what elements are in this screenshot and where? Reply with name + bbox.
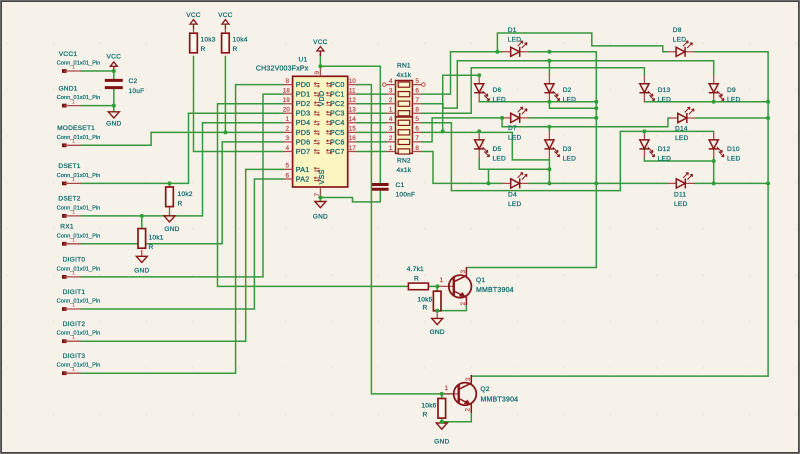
svg-text:PC6: PC6 (330, 137, 345, 146)
resistor network RN1 body (396, 81, 413, 118)
svg-text:LED: LED (658, 96, 671, 103)
svg-text:R: R (178, 201, 183, 208)
svg-text:Conn_01x01_Pin: Conn_01x01_Pin (57, 266, 101, 272)
wire RX1 riser to PD6 (222, 142, 283, 244)
svg-text:5: 5 (415, 116, 419, 123)
svg-text:R: R (149, 244, 154, 251)
LED D6 (474, 75, 489, 102)
svg-text:GND: GND (106, 121, 121, 128)
label MCU left pin names (296, 80, 311, 183)
svg-text:6: 6 (415, 126, 419, 133)
svg-text:16: 16 (349, 135, 357, 142)
svg-text:2: 2 (464, 408, 471, 412)
svg-text:VCC: VCC (186, 12, 201, 19)
svg-text:4: 4 (286, 145, 290, 152)
svg-text:LED: LED (563, 155, 576, 162)
svg-text:DIGIT0: DIGIT0 (63, 257, 86, 264)
svg-text:3: 3 (465, 377, 472, 381)
capacitor C2 (105, 80, 123, 87)
svg-text:D12: D12 (658, 146, 671, 153)
LED D9 (709, 75, 724, 102)
svg-text:Conn_01x01_Pin: Conn_01x01_Pin (57, 205, 101, 211)
connector MODESET1 pin (62, 143, 81, 147)
wire VCC to MCU VDD and C1 (320, 54, 380, 183)
wire 10k2 lead (169, 183, 171, 186)
power VCC (U1) (317, 47, 324, 57)
svg-text:R: R (423, 412, 428, 419)
svg-text:GND: GND (313, 214, 328, 221)
wire D10 cathode drop to D11 row (713, 158, 715, 184)
svg-text:LED: LED (727, 96, 740, 103)
wire RN1 pin7 jog channel to D2/D8 feed line (422, 61, 714, 108)
svg-text:LED: LED (675, 135, 688, 142)
svg-text:GND: GND (434, 439, 449, 446)
svg-text:C1: C1 (396, 182, 405, 189)
svg-text:Q1: Q1 (476, 277, 485, 284)
wire Q1 emitter to gnd node (437, 286, 466, 311)
svg-text:10k1: 10k1 (149, 235, 164, 242)
MCU VSS pin stub (bottom) (319, 187, 321, 198)
svg-text:VCC: VCC (107, 54, 122, 61)
wire DIGIT0 riser to PD1 (263, 94, 284, 277)
svg-text:100nF: 100nF (396, 192, 416, 199)
svg-text:D5: D5 (493, 146, 502, 153)
connector GND1 pin (62, 104, 81, 108)
wire DIGIT1 riser to PA2 (254, 179, 283, 309)
svg-text:1: 1 (72, 271, 75, 277)
svg-text:17: 17 (349, 145, 357, 152)
svg-text:10k4: 10k4 (233, 37, 248, 44)
svg-text:VCC1: VCC1 (59, 51, 78, 58)
svg-text:4x1k: 4x1k (397, 167, 412, 174)
wire D5 cathode link (479, 158, 549, 169)
LED D5 (474, 131, 489, 158)
wire RN1 pin8 row to D13/D9 feed (422, 68, 645, 113)
svg-text:DIGIT3: DIGIT3 (63, 353, 86, 360)
svg-text:VDD: VDD (317, 91, 326, 107)
svg-text:3: 3 (286, 135, 290, 142)
wire D6 feed riser (443, 75, 480, 131)
svg-text:4x1k: 4x1k (397, 72, 412, 79)
svg-text:PD4: PD4 (296, 118, 311, 127)
power VCC (C2 node) (110, 62, 117, 72)
svg-text:D2: D2 (563, 87, 572, 94)
wire D2 feed drop (548, 61, 550, 75)
svg-text:1: 1 (72, 99, 75, 105)
svg-text:RN1: RN1 (397, 63, 411, 70)
LED D10 (709, 131, 724, 158)
resistor R 4.7k1 (horizontal) (408, 283, 428, 290)
RN left pin stubs (386, 85, 395, 152)
wire D4 cathode to rail (529, 182, 597, 184)
svg-text:Conn_01x01_Pin: Conn_01x01_Pin (57, 233, 101, 239)
svg-text:10k6: 10k6 (421, 403, 436, 410)
svg-text:LED: LED (508, 201, 521, 208)
svg-text:LED: LED (674, 201, 687, 208)
svg-text:GND: GND (430, 329, 445, 336)
resistor network RN2 body (396, 117, 413, 153)
svg-text:12: 12 (349, 97, 357, 104)
svg-text:9: 9 (314, 71, 321, 75)
resistor R 10k4 (222, 33, 230, 53)
svg-text:3: 3 (389, 88, 393, 95)
svg-text:1: 1 (389, 145, 393, 152)
wire GND1 to C2 bottom node (81, 105, 114, 107)
svg-text:1: 1 (72, 139, 75, 145)
wire D12 cathode link (644, 158, 713, 161)
svg-text:4.7k1: 4.7k1 (407, 266, 424, 273)
label MCU pin numbers right (349, 78, 357, 152)
svg-text:PD6: PD6 (296, 137, 311, 146)
svg-text:GND1: GND1 (58, 85, 77, 92)
svg-text:5: 5 (415, 78, 419, 85)
LED D11 (668, 173, 695, 189)
svg-text:2: 2 (389, 97, 393, 104)
svg-text:10k5: 10k5 (417, 297, 432, 304)
svg-text:R: R (414, 275, 419, 282)
svg-text:MODESET1: MODESET1 (57, 125, 95, 132)
svg-text:Conn_01x01_Pin: Conn_01x01_Pin (57, 95, 101, 101)
wire RN2 pin7 jog to D7 anode line (422, 118, 503, 142)
svg-text:10k3: 10k3 (201, 37, 216, 44)
svg-text:PC2: PC2 (330, 99, 345, 108)
svg-text:PC4: PC4 (330, 118, 345, 127)
svg-text:1: 1 (72, 210, 75, 216)
svg-text:U1: U1 (299, 57, 308, 64)
svg-text:D6: D6 (493, 87, 502, 94)
svg-text:2: 2 (389, 135, 393, 142)
svg-text:LED: LED (658, 155, 671, 162)
ground GND (Q1/10k5) (432, 318, 443, 324)
wire 10k4 to MODESET net (224, 56, 226, 132)
svg-text:4: 4 (389, 116, 393, 123)
wire Q2 collector (471, 375, 768, 377)
svg-text:Conn_01x01_Pin: Conn_01x01_Pin (57, 135, 101, 141)
wire D1 cathode to D2 anode rail (529, 52, 597, 68)
LED D13 (639, 75, 654, 102)
svg-text:7: 7 (415, 97, 419, 104)
wire 10k1 lead (141, 216, 143, 228)
svg-text:1: 1 (72, 238, 75, 244)
svg-text:3: 3 (389, 126, 393, 133)
wire right common rail (694, 52, 768, 376)
svg-text:LED: LED (727, 155, 740, 162)
svg-text:6: 6 (415, 88, 419, 95)
power VCC (10k4) (222, 20, 229, 30)
svg-text:Conn_01x01_Pin: Conn_01x01_Pin (57, 363, 101, 369)
MCU bidirectional pin glyphs (314, 82, 332, 181)
svg-text:8: 8 (415, 145, 419, 152)
wire D2 cathode jog (549, 102, 596, 108)
svg-text:20: 20 (283, 107, 291, 114)
svg-text:D4: D4 (508, 192, 517, 199)
wire RN2 pin8 to D4 anode line (422, 151, 503, 183)
svg-text:1: 1 (72, 303, 75, 309)
LED D3 (544, 131, 559, 158)
svg-text:Q2: Q2 (481, 386, 490, 393)
MCU right pin stubs (348, 85, 357, 152)
capacitor C1 (372, 185, 389, 190)
svg-text:10: 10 (349, 78, 357, 85)
MCU VDD pin stub (top) (319, 66, 321, 76)
wire RN2 pin5 to D12/D10 anode feed (422, 123, 714, 191)
svg-text:PD1: PD1 (296, 90, 311, 99)
RN1 dangling pin circles (383, 83, 387, 87)
wire MODESET1 to PD5 (81, 132, 284, 145)
svg-text:PC7: PC7 (330, 147, 345, 156)
svg-text:10uF: 10uF (129, 88, 145, 95)
svg-text:D3: D3 (563, 146, 572, 153)
svg-text:VSS: VSS (317, 170, 326, 185)
transistor Q1 MMBT3904 (437, 267, 471, 305)
connector DSET2 pin (62, 214, 81, 218)
svg-text:RN2: RN2 (397, 158, 411, 165)
wire Q2 base node (441, 394, 443, 397)
svg-text:18: 18 (283, 88, 291, 95)
svg-text:D7: D7 (508, 125, 517, 132)
svg-text:10k2: 10k2 (178, 191, 193, 198)
label RN pin numbers (389, 78, 420, 152)
wire D14 cathode to rail (696, 117, 768, 119)
svg-text:6: 6 (286, 172, 290, 179)
label MCU right pin names (330, 80, 345, 156)
MCU left pin stubs (284, 85, 293, 179)
svg-text:VCC: VCC (313, 39, 328, 46)
connector RX1 pin (62, 242, 81, 246)
svg-text:1: 1 (72, 335, 75, 341)
svg-text:R: R (233, 46, 238, 53)
connector VCC1 pin (62, 69, 81, 73)
svg-text:Conn_01x01_Pin: Conn_01x01_Pin (57, 173, 101, 179)
svg-text:PC0: PC0 (330, 80, 345, 89)
svg-text:8: 8 (286, 78, 290, 85)
RN inner resistor elements (398, 82, 410, 154)
wire DIGIT0 to riser (81, 276, 263, 278)
wire DIGIT1 to riser (81, 308, 254, 310)
LED D7 (502, 107, 529, 123)
transistor Q2 MMBT3904 (442, 375, 477, 413)
connector DIGIT2 pin (62, 339, 81, 343)
wire Q2 emitter to gnd node (442, 413, 472, 422)
svg-text:PD0: PD0 (296, 80, 311, 89)
wire D3 anode drop from D14 feed line (548, 127, 550, 132)
label MCU pin numbers left (283, 78, 291, 179)
wire DIGIT2 to riser (81, 340, 246, 342)
svg-text:Conn_01x01_Pin: Conn_01x01_Pin (57, 331, 101, 337)
resistor R 10k1 (138, 229, 146, 249)
wire Q1 base node (428, 285, 437, 287)
svg-text:13: 13 (349, 107, 357, 114)
wire D13 cathode rail (644, 101, 768, 103)
svg-text:7: 7 (415, 135, 419, 142)
svg-text:D9: D9 (727, 87, 736, 94)
svg-text:4: 4 (389, 78, 393, 85)
wire RN2 pin6 long row to D5 anode line (422, 132, 550, 160)
svg-text:15: 15 (349, 126, 357, 133)
svg-text:1: 1 (440, 277, 444, 284)
LED D12 (639, 131, 654, 158)
svg-text:1: 1 (286, 116, 290, 123)
connector DIGIT3 pin (62, 371, 81, 375)
svg-text:DIGIT1: DIGIT1 (63, 289, 86, 296)
svg-text:R: R (201, 46, 206, 53)
LED D4 (502, 173, 529, 189)
LED D2 (544, 75, 559, 102)
wire DIGIT3 riser to PD0 (236, 85, 284, 374)
ground GND (10k1) (136, 256, 147, 262)
svg-text:D8: D8 (673, 27, 682, 34)
svg-text:Conn_01x01_Pin: Conn_01x01_Pin (57, 61, 101, 67)
svg-text:Conn_01x01_Pin: Conn_01x01_Pin (57, 299, 101, 305)
RN right pin stubs (412, 85, 421, 152)
svg-text:D10: D10 (727, 146, 740, 153)
svg-text:5: 5 (286, 163, 290, 170)
svg-text:D14: D14 (675, 126, 688, 133)
wire PD2 to Q1 base resistor (218, 104, 409, 287)
wire DSET2 to riser (81, 215, 203, 217)
wire D6 cathode to common rail (479, 101, 596, 103)
resistor R 10k2 (166, 187, 174, 207)
svg-text:PD3: PD3 (296, 109, 311, 118)
svg-text:DSET1: DSET1 (58, 163, 80, 170)
svg-text:PC5: PC5 (330, 128, 345, 137)
svg-text:LED: LED (493, 96, 506, 103)
svg-text:GND: GND (164, 226, 179, 233)
resistor R 10k6 (438, 399, 446, 419)
svg-text:PA1: PA1 (296, 165, 310, 174)
wire DSET1 riser to PD3 (189, 113, 284, 183)
svg-text:DSET2: DSET2 (58, 196, 80, 203)
wire MCU PC1-PC7 to RN pins (357, 94, 386, 151)
svg-text:LED: LED (673, 37, 686, 44)
wire D3 cathode drop to D4 row (548, 158, 550, 184)
resistor R 10k5 lead (436, 311, 438, 318)
svg-text:DIGIT2: DIGIT2 (63, 321, 86, 328)
MCU U1 CH32V003FxPx body (293, 76, 348, 187)
svg-text:2: 2 (460, 302, 467, 306)
svg-text:R: R (423, 304, 428, 311)
svg-text:RX1: RX1 (60, 224, 74, 231)
wire D5/D4 link riser (488, 169, 490, 183)
wire D7 anode dot branch to D14 (502, 118, 669, 127)
svg-text:D1: D1 (508, 27, 517, 34)
svg-text:PC1: PC1 (330, 90, 345, 99)
connector DIGIT0 pin (62, 275, 81, 279)
wire RN1 pin6 to D1 anode (422, 52, 503, 94)
resistor R 10k5 (433, 291, 441, 311)
svg-text:CH32V003FxPx: CH32V003FxPx (256, 66, 309, 73)
svg-text:3: 3 (460, 270, 467, 274)
wire D11 cathode to rail (694, 182, 768, 184)
ground GND (C2 node) (108, 112, 119, 118)
svg-text:C2: C2 (129, 78, 138, 85)
svg-text:1: 1 (72, 367, 75, 373)
svg-text:LED: LED (508, 135, 521, 142)
wire PC0 long drop to Q2 base (357, 85, 453, 394)
wire D4 row to D11 anode (596, 182, 667, 184)
svg-text:PD5: PD5 (296, 128, 311, 137)
wire C2 vertical node (113, 71, 115, 112)
wire RX1 to riser (81, 243, 222, 245)
svg-text:MMBT3904: MMBT3904 (481, 397, 519, 404)
svg-text:14: 14 (349, 116, 357, 123)
wire D7 cathode to common rail (529, 117, 597, 119)
svg-text:PC3: PC3 (330, 109, 345, 118)
svg-text:D11: D11 (674, 192, 686, 199)
connector DIGIT1 pin (62, 307, 81, 311)
svg-text:8: 8 (415, 107, 419, 114)
svg-text:PD2: PD2 (296, 99, 311, 108)
svg-text:LED: LED (508, 37, 521, 44)
svg-text:7: 7 (314, 193, 321, 197)
wire common rail down to Q1 collector (466, 52, 596, 268)
svg-text:1: 1 (72, 65, 75, 71)
svg-text:1: 1 (72, 177, 75, 183)
LED D14 (669, 107, 696, 123)
svg-text:19: 19 (283, 97, 291, 104)
wire DSET2 riser to PD4 (203, 123, 284, 216)
wire MCU VSS to GND and C1 bottom (320, 192, 380, 202)
svg-text:1: 1 (445, 385, 449, 392)
wire D1 anode branch up-over to D8 (497, 33, 667, 52)
LED D8 (668, 41, 695, 57)
svg-text:GND: GND (134, 268, 149, 275)
ground GND (Q2/10k6) (436, 423, 447, 429)
wire VCC1 to VCC/C2 node (81, 70, 114, 72)
LED D1 (502, 41, 529, 57)
svg-text:LED: LED (563, 96, 576, 103)
wire DIGIT2 riser to PA1 (246, 169, 284, 341)
svg-text:VCC: VCC (218, 12, 233, 19)
svg-text:D13: D13 (658, 87, 671, 94)
ground GND (U1) (315, 202, 326, 208)
svg-text:MMBT3904: MMBT3904 (476, 287, 514, 294)
connector DSET1 pin (62, 182, 81, 186)
svg-text:1: 1 (389, 107, 393, 114)
svg-text:PD7: PD7 (296, 147, 311, 156)
wire DIGIT3 to riser (81, 372, 236, 374)
svg-text:PA2: PA2 (296, 174, 310, 183)
svg-text:11: 11 (349, 88, 356, 95)
power VCC (10k3) (190, 20, 197, 30)
wire DSET1 to vertical riser (81, 182, 189, 184)
svg-text:2: 2 (286, 126, 290, 133)
ground GND (10k2) (164, 216, 175, 222)
svg-text:LED: LED (493, 155, 506, 162)
wire 10k3 to PD7 (194, 56, 284, 151)
resistor R 10k3 (190, 33, 198, 53)
